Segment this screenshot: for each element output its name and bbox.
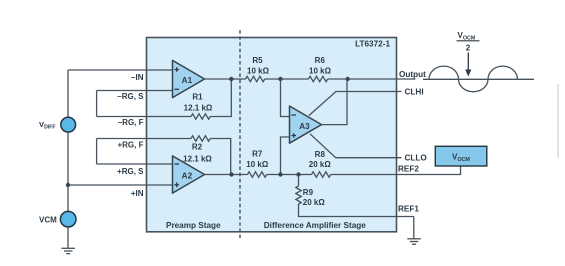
wire output baseline [423,78,534,80]
pin + of A2 [174,183,179,188]
svg-text:R6: R6 [315,56,326,65]
svg-text:R9: R9 [303,188,314,197]
svg-text:REF2: REF2 [398,165,419,174]
svg-text:R2: R2 [192,143,203,152]
wire -RG bracket [96,91,98,117]
source VCM [60,211,76,227]
wire REF2 to VOCM box [397,166,461,175]
wire Output stub [397,78,416,80]
resistor R7 [248,172,267,177]
svg-text:10 kΩ: 10 kΩ [247,66,270,75]
svg-text:A2: A2 [182,172,193,181]
node +IN junction [66,183,70,187]
wire VDIFF to VCM [67,132,69,212]
arrow VOCM/2 [467,53,469,71]
pin - of A2 [174,163,179,165]
wire R5 to R6 [265,78,309,80]
resistor R1 [191,114,210,119]
svg-text:Output: Output [399,70,426,79]
IC body LT6372-1 [147,38,397,232]
ground VCM [62,248,76,253]
svg-text:12.1 kΩ: 12.1 kΩ [183,154,212,163]
wire A3 non-inverting input [281,137,290,175]
resistor R6 [309,76,328,81]
wire R8 to REF2 [331,174,397,176]
resistor R5 [246,76,265,81]
wire CLLO [310,134,402,158]
svg-text:R7: R7 [252,150,263,159]
svg-text:20 kΩ: 20 kΩ [303,198,326,207]
ground REF1 [407,239,421,244]
wire CLHI [309,92,402,116]
node R9 top [296,172,300,176]
node A3 +IN feed [278,172,282,176]
wire +IN [68,184,173,186]
wire +RG bracket [96,139,98,165]
wire R6 to output pin [328,78,397,80]
svg-text:VDIFF: VDIFF [39,120,56,131]
resistor R9 [296,186,301,204]
op-amp A3 [290,106,322,143]
svg-text:–RG, S: –RG, S [117,92,144,101]
wire +RG,F / R2 row [97,138,191,140]
wire A3 inverting input [281,79,290,117]
wire R2 to A2 output node [210,139,231,175]
wire REF1 to ground [413,217,415,239]
node A3 -IN feed [278,77,282,81]
wire R9 top lead [298,175,300,187]
wire R9 to REF1 [299,204,414,217]
wire R7 to R8 [267,174,312,176]
pin - of A1 [174,88,179,90]
fraction bar [457,40,480,42]
svg-text:–IN: –IN [131,73,144,82]
pin + of A3 [291,133,296,138]
arrowhead [465,70,471,77]
wire input source vertical [67,70,69,117]
svg-text:12.1 kΩ: 12.1 kΩ [184,104,213,113]
output sine wave [429,66,518,92]
svg-text:CLHI: CLHI [405,88,424,97]
page edge line [557,84,559,158]
node A2 output [229,172,233,176]
svg-text:R1: R1 [192,93,203,102]
wire -RG,S [97,90,173,92]
wire -IN [68,69,173,71]
svg-text:R8: R8 [315,150,326,159]
svg-text:20 kΩ: 20 kΩ [309,160,332,169]
pin - of A3 [291,114,296,116]
svg-text:2: 2 [466,43,471,52]
pin + of A1 [174,67,179,72]
svg-text:Difference Amplifier Stage: Difference Amplifier Stage [264,221,367,230]
svg-text:R5: R5 [252,56,263,65]
svg-text:VCM: VCM [39,216,57,225]
op-amp A1 [173,60,205,97]
svg-text:REF1: REF1 [398,204,419,213]
svg-text:–RG, F: –RG, F [118,118,144,127]
svg-text:A3: A3 [299,122,310,131]
node A1 output [229,77,233,81]
svg-text:Preamp Stage: Preamp Stage [166,221,221,230]
source VOCM box [435,146,487,166]
svg-text:A1: A1 [182,76,193,85]
wire A3 output to feedback node [322,79,348,125]
node A3 feedback [346,77,350,81]
resistor R2 [191,136,210,141]
wire -RG,F / R1 row [97,116,191,118]
svg-text:LT6372-1: LT6372-1 [355,40,390,49]
svg-text:+RG, F: +RG, F [117,141,143,150]
op-amp A2 [173,156,205,193]
svg-text:10 kΩ: 10 kΩ [309,66,332,75]
svg-text:CLLO: CLLO [405,153,428,162]
resistor R8 [312,172,331,177]
svg-text:VOCM: VOCM [458,31,476,42]
svg-text:10 kΩ: 10 kΩ [246,160,269,169]
source VDIFF [61,117,76,132]
wire A1 output row [205,78,246,80]
svg-text:+IN: +IN [131,189,144,198]
wire R1 to A1 output node [210,79,231,117]
wire +RG,S [97,163,173,165]
wire A2 output row [205,174,248,176]
svg-text:+RG, S: +RG, S [117,167,144,176]
stage divider dashed line [239,30,241,238]
wire VCM to ground [67,227,69,248]
